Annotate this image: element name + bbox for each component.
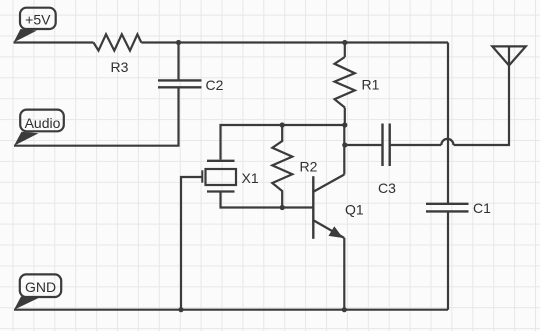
wire R1 top lead [344, 43, 346, 58]
wire feedback to crystal [221, 125, 345, 160]
antenna [492, 46, 526, 65]
wire emitter down [343, 238, 345, 310]
wire C3 to hop [390, 144, 442, 146]
node R1/feedback junction [342, 122, 347, 127]
capacitor C1 [426, 204, 469, 212]
svg-text:R3: R3 [111, 59, 129, 75]
node junction R1/top rail [342, 40, 347, 45]
svg-text:X1: X1 [242, 170, 259, 186]
power flag +5V [14, 8, 56, 43]
wire collector up [343, 125, 345, 175]
wire crystal case to ground [181, 177, 203, 310]
wire top rail left [14, 41, 94, 43]
svg-text:GND: GND [25, 279, 56, 295]
node R2 bottom junction [280, 205, 285, 210]
wire C2 upper lead [177, 43, 179, 80]
port flag Audio [14, 110, 64, 146]
capacitor C2 [158, 80, 202, 87]
svg-text:Audio: Audio [25, 115, 61, 131]
wire crystal bottom lead [221, 192, 314, 208]
wire ground rail [14, 309, 448, 311]
transistor Q1 [313, 175, 344, 239]
node emitter/ground junction [342, 307, 347, 312]
wire hop over vertical [441, 139, 453, 145]
wire right vertical from top rail [447, 43, 449, 204]
wire to C3 [345, 144, 382, 146]
svg-text:C1: C1 [473, 200, 491, 216]
svg-text:+5V: +5V [25, 12, 51, 28]
svg-text:C3: C3 [378, 180, 396, 196]
node junction C2/top rail [176, 40, 181, 45]
svg-text:R2: R2 [300, 159, 318, 175]
wire hop to antenna riser [454, 65, 510, 145]
resistor R3 [94, 34, 142, 50]
node collector/C3 junction [342, 142, 347, 147]
wire C2 lower lead to Audio [14, 87, 179, 145]
node R2 top junction [280, 122, 285, 127]
port flag GND [14, 274, 61, 309]
resistor R2 [272, 125, 292, 208]
wire R1 bottom lead [344, 108, 346, 126]
wire C1 bottom to ground rail [447, 211, 449, 309]
svg-text:C2: C2 [206, 77, 224, 93]
svg-text:Q1: Q1 [345, 202, 364, 218]
node crystal case/ground junction [178, 307, 183, 312]
capacitor C3 [383, 124, 390, 167]
crystal X1 [202, 161, 236, 192]
wire top rail right [141, 41, 448, 43]
svg-text:R1: R1 [362, 77, 380, 93]
resistor R1 [335, 57, 355, 108]
